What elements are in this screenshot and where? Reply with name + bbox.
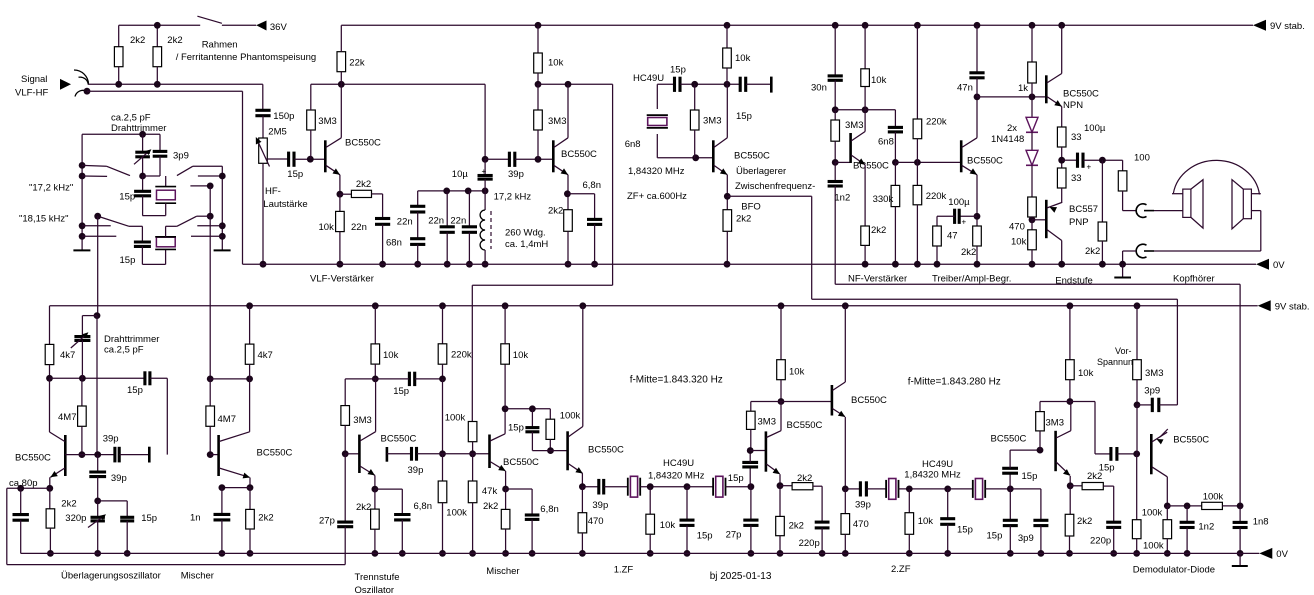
svg-text:10k: 10k xyxy=(548,58,564,69)
svg-text:15p: 15p xyxy=(119,192,135,203)
svg-text:+: + xyxy=(482,167,487,176)
svg-text:0V: 0V xyxy=(1273,260,1285,271)
svg-text:27p: 27p xyxy=(319,515,335,526)
svg-text:Vor-: Vor- xyxy=(1115,346,1132,356)
svg-text:10k: 10k xyxy=(383,350,399,361)
svg-text:"18,15 kHz": "18,15 kHz" xyxy=(19,214,69,225)
svg-text:3M3: 3M3 xyxy=(758,416,776,427)
svg-text:15p: 15p xyxy=(987,530,1003,541)
svg-text:Mischer: Mischer xyxy=(181,571,214,582)
svg-text:HC49U: HC49U xyxy=(633,73,664,84)
svg-text:100k: 100k xyxy=(1142,507,1163,518)
svg-text:220k: 220k xyxy=(926,116,947,127)
svg-text:6n8: 6n8 xyxy=(878,137,894,148)
svg-text:2k2: 2k2 xyxy=(789,520,804,531)
svg-text:4M7: 4M7 xyxy=(218,414,236,425)
svg-text:NPN: NPN xyxy=(1063,100,1083,111)
svg-text:220p: 220p xyxy=(799,538,820,549)
svg-text:320p: 320p xyxy=(65,513,86,524)
svg-text:1.ZF: 1.ZF xyxy=(614,564,634,575)
svg-text:15p: 15p xyxy=(957,524,973,535)
svg-text:Lautstärke: Lautstärke xyxy=(263,199,307,210)
svg-text:1,84320 MHz: 1,84320 MHz xyxy=(904,469,961,480)
svg-text:150p: 150p xyxy=(273,111,294,122)
svg-text:"17,2 kHz": "17,2 kHz" xyxy=(29,183,73,194)
svg-text:15p: 15p xyxy=(736,111,752,122)
svg-text:Trennstufe: Trennstufe xyxy=(355,572,400,583)
svg-text:VLF-HF: VLF-HF xyxy=(15,88,48,99)
svg-text:27p: 27p xyxy=(726,530,742,541)
svg-text:39p: 39p xyxy=(111,473,127,484)
svg-text:BC550C: BC550C xyxy=(503,457,539,468)
svg-text:470: 470 xyxy=(588,516,604,527)
svg-text:100k: 100k xyxy=(1203,491,1224,502)
svg-text:/ Ferritantenne Phantomspeisun: / Ferritantenne Phantomspeisung xyxy=(176,52,316,63)
svg-text:10k: 10k xyxy=(1078,368,1094,379)
svg-text:2k2: 2k2 xyxy=(871,225,886,236)
svg-text:33: 33 xyxy=(1071,173,1082,184)
svg-text:10k: 10k xyxy=(319,222,335,233)
svg-text:Treiber/Ampl-Begr.: Treiber/Ampl-Begr. xyxy=(932,274,1011,285)
svg-text:3M3: 3M3 xyxy=(845,120,863,131)
svg-text:15p: 15p xyxy=(141,513,157,524)
svg-text:Zwischenfrequenz-: Zwischenfrequenz- xyxy=(735,181,815,192)
svg-text:2k2: 2k2 xyxy=(736,214,751,225)
svg-text:15p: 15p xyxy=(508,422,524,433)
svg-text:BC550C: BC550C xyxy=(734,151,770,162)
svg-text:2k2: 2k2 xyxy=(961,247,976,258)
svg-text:3M3: 3M3 xyxy=(703,116,721,127)
svg-text:100k: 100k xyxy=(445,412,466,423)
svg-text:Überlagerer: Überlagerer xyxy=(736,166,786,177)
svg-text:100k: 100k xyxy=(1143,540,1164,551)
svg-text:BC550C: BC550C xyxy=(381,433,417,444)
svg-text:15p: 15p xyxy=(670,65,686,76)
svg-text:HF-: HF- xyxy=(265,186,281,197)
svg-text:3p9: 3p9 xyxy=(1144,385,1160,396)
svg-text:Drahttrimmer: Drahttrimmer xyxy=(104,334,159,345)
svg-text:22n: 22n xyxy=(428,215,444,226)
svg-text:Kopfhörer: Kopfhörer xyxy=(1173,273,1215,284)
svg-text:39p: 39p xyxy=(103,434,119,445)
svg-text:ca.2,5 pF: ca.2,5 pF xyxy=(104,345,144,356)
svg-text:2k2: 2k2 xyxy=(483,501,498,512)
svg-text:1k: 1k xyxy=(1018,83,1028,94)
svg-text:BC550C: BC550C xyxy=(1063,89,1099,100)
svg-text:+: + xyxy=(962,218,967,227)
svg-text:2.ZF: 2.ZF xyxy=(891,564,911,575)
svg-text:10k: 10k xyxy=(660,520,676,531)
svg-text:47: 47 xyxy=(947,231,958,242)
svg-text:3M3: 3M3 xyxy=(318,116,336,127)
svg-text:BC550C: BC550C xyxy=(787,420,823,431)
svg-text:30n: 30n xyxy=(811,83,827,94)
svg-text:220k: 220k xyxy=(926,191,947,202)
svg-text:1,84320 MHz: 1,84320 MHz xyxy=(628,166,685,177)
svg-text:22k: 22k xyxy=(349,58,365,69)
svg-text:1n2: 1n2 xyxy=(1198,521,1214,532)
svg-text:33: 33 xyxy=(1071,132,1082,143)
svg-text:6,8n: 6,8n xyxy=(414,501,433,512)
svg-text:470: 470 xyxy=(1009,222,1025,233)
svg-text:9V stab.: 9V stab. xyxy=(1275,301,1310,312)
svg-text:39p: 39p xyxy=(855,499,871,510)
svg-text:BFO: BFO xyxy=(741,202,761,213)
svg-text:22n: 22n xyxy=(351,222,367,233)
svg-text:15p: 15p xyxy=(287,169,303,180)
svg-text:BC550C: BC550C xyxy=(257,448,293,459)
svg-text:VLF-Verstärker: VLF-Verstärker xyxy=(310,273,374,284)
svg-text:2k2: 2k2 xyxy=(797,473,812,484)
svg-text:6,8n: 6,8n xyxy=(540,504,559,515)
svg-text:PNP: PNP xyxy=(1069,217,1089,228)
svg-text:1,84320 MHz: 1,84320 MHz xyxy=(648,470,705,481)
svg-text:BC550C: BC550C xyxy=(851,395,887,406)
svg-text:1n: 1n xyxy=(190,513,201,524)
svg-text:100µ: 100µ xyxy=(948,197,970,208)
svg-text:Rahmen: Rahmen xyxy=(202,40,238,51)
svg-text:BC550C: BC550C xyxy=(15,453,51,464)
svg-text:4k7: 4k7 xyxy=(258,350,273,361)
svg-text:10k: 10k xyxy=(918,516,934,527)
svg-text:39p: 39p xyxy=(508,169,524,180)
svg-text:f-Mitte=1.843.320 Hz: f-Mitte=1.843.320 Hz xyxy=(630,374,723,385)
svg-text:22n: 22n xyxy=(397,217,413,228)
svg-text:39p: 39p xyxy=(592,500,608,511)
svg-text:2M5: 2M5 xyxy=(268,127,286,138)
svg-text:39p: 39p xyxy=(408,465,424,476)
svg-text:2k2: 2k2 xyxy=(548,206,563,217)
svg-text:15p: 15p xyxy=(1099,462,1115,473)
svg-text:47k: 47k xyxy=(482,486,498,497)
svg-text:47n: 47n xyxy=(957,83,973,94)
svg-text:15p: 15p xyxy=(697,530,713,541)
svg-text:15p: 15p xyxy=(127,385,143,396)
svg-text:6n8: 6n8 xyxy=(625,139,641,150)
svg-text:15p: 15p xyxy=(393,386,409,397)
svg-text:2k2: 2k2 xyxy=(61,499,76,510)
svg-text:Endstufe: Endstufe xyxy=(1055,275,1093,286)
svg-text:220p: 220p xyxy=(1090,535,1111,546)
svg-text:BC550C: BC550C xyxy=(345,138,381,149)
svg-text:Drahttrimmer: Drahttrimmer xyxy=(111,123,166,134)
svg-text:+: + xyxy=(1087,163,1092,172)
svg-text:10k: 10k xyxy=(513,350,529,361)
svg-text:330k: 330k xyxy=(873,194,894,205)
svg-text:15p: 15p xyxy=(120,255,136,266)
svg-text:ca. 1,4mH: ca. 1,4mH xyxy=(505,239,548,250)
svg-text:2k2: 2k2 xyxy=(1077,516,1092,527)
svg-text:bj 2025-01-13: bj 2025-01-13 xyxy=(710,571,772,582)
svg-text:NF-Verstärker: NF-Verstärker xyxy=(848,274,907,285)
svg-text:2k2: 2k2 xyxy=(130,35,145,46)
svg-text:220k: 220k xyxy=(451,350,472,361)
svg-text:BC557: BC557 xyxy=(1069,204,1098,215)
svg-text:100µ: 100µ xyxy=(1084,123,1106,134)
svg-text:Signal: Signal xyxy=(21,74,47,85)
svg-text:10k: 10k xyxy=(1011,237,1027,248)
svg-text:BC550C: BC550C xyxy=(561,149,597,160)
svg-text:2k2: 2k2 xyxy=(1085,246,1100,257)
svg-text:10µ: 10µ xyxy=(452,169,469,180)
svg-text:6,8n: 6,8n xyxy=(583,180,602,191)
svg-text:3M3: 3M3 xyxy=(1046,418,1064,429)
svg-text:17,2 kHz: 17,2 kHz xyxy=(494,191,532,202)
svg-text:9V stab.: 9V stab. xyxy=(1270,21,1305,32)
svg-text:3M3: 3M3 xyxy=(548,116,566,127)
svg-text:BC550C: BC550C xyxy=(1173,434,1209,445)
svg-text:BC550C: BC550C xyxy=(991,433,1027,444)
svg-text:10k: 10k xyxy=(735,53,751,64)
svg-text:100k: 100k xyxy=(560,410,581,421)
svg-text:ca.80p: ca.80p xyxy=(9,478,38,489)
svg-text:4M7: 4M7 xyxy=(58,412,76,423)
svg-text:1n8: 1n8 xyxy=(1253,517,1269,528)
svg-text:100k: 100k xyxy=(446,507,467,518)
svg-text:2k2: 2k2 xyxy=(356,502,371,513)
svg-text:2x: 2x xyxy=(1007,123,1017,134)
svg-text:BC550C: BC550C xyxy=(967,156,1003,167)
svg-text:1N4148: 1N4148 xyxy=(991,134,1024,145)
svg-text:3p9: 3p9 xyxy=(173,150,189,161)
svg-text:2k2: 2k2 xyxy=(167,35,182,46)
svg-text:2k2: 2k2 xyxy=(258,513,273,524)
svg-text:HC49U: HC49U xyxy=(663,458,694,469)
svg-text:22n: 22n xyxy=(450,215,466,226)
svg-text:Mischer: Mischer xyxy=(486,566,519,577)
svg-text:Überlagerungsoszillator: Überlagerungsoszillator xyxy=(61,571,161,582)
svg-text:15p: 15p xyxy=(728,473,744,484)
svg-text:Oszillator: Oszillator xyxy=(355,585,395,595)
svg-text:Spannung: Spannung xyxy=(1097,357,1138,367)
svg-text:Demodulator-Diode: Demodulator-Diode xyxy=(1133,564,1215,575)
svg-text:BC550C: BC550C xyxy=(588,444,624,455)
svg-text:10k: 10k xyxy=(871,75,887,86)
svg-text:1n2: 1n2 xyxy=(834,193,850,204)
svg-text:36V: 36V xyxy=(270,22,288,33)
svg-text:100: 100 xyxy=(1134,153,1150,164)
svg-text:470: 470 xyxy=(853,519,869,530)
svg-text:68n: 68n xyxy=(386,238,402,249)
svg-text:f-Mitte=1.843.280 Hz: f-Mitte=1.843.280 Hz xyxy=(908,376,1001,387)
svg-text:3M3: 3M3 xyxy=(1145,368,1163,379)
svg-text:ZF+ ca.600Hz: ZF+ ca.600Hz xyxy=(627,191,687,202)
svg-text:15p: 15p xyxy=(1022,471,1038,482)
svg-text:BC550C: BC550C xyxy=(853,161,889,172)
svg-text:0V: 0V xyxy=(1276,549,1288,560)
svg-text:4k7: 4k7 xyxy=(60,350,75,361)
svg-text:2k2: 2k2 xyxy=(356,179,371,190)
svg-text:3p9: 3p9 xyxy=(1018,533,1034,544)
svg-text:10k: 10k xyxy=(789,366,805,377)
svg-text:260 Wdg.: 260 Wdg. xyxy=(505,228,546,239)
svg-text:3M3: 3M3 xyxy=(353,415,371,426)
